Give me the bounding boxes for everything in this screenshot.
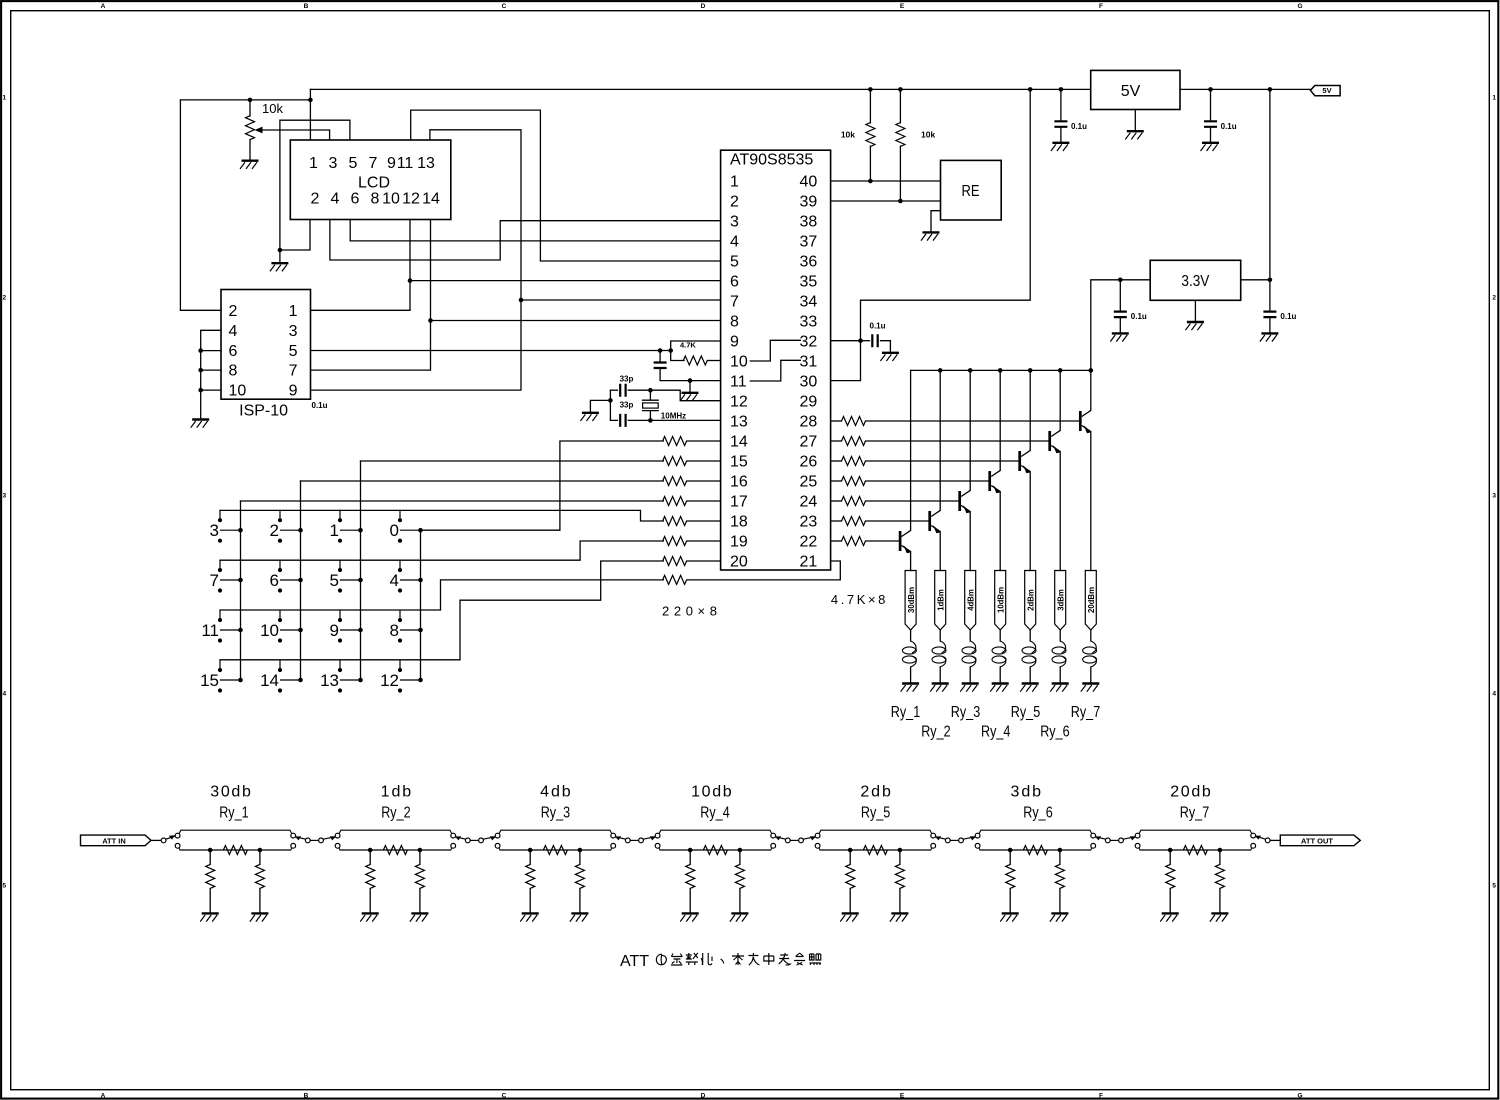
ground (AREF cap)	[880, 353, 899, 361]
wire: LCD pin13 to IC pin7 and ISP pin9	[311, 130, 721, 390]
resistor 4.7K (pin24)	[831, 497, 960, 506]
svg-text:5V: 5V	[1322, 86, 1331, 95]
ground (5V out cap)	[1201, 143, 1220, 151]
svg-text:31: 31	[800, 354, 818, 371]
svg-text:36: 36	[800, 254, 818, 271]
ground (3.3V reg)	[1185, 322, 1204, 330]
svg-text:27: 27	[800, 434, 818, 451]
transistor Q5	[1020, 450, 1031, 473]
svg-text:5: 5	[1492, 883, 1496, 890]
svg-text:3: 3	[730, 214, 739, 231]
svg-text:B: B	[304, 1093, 309, 1100]
svg-text:Ry_3: Ry_3	[541, 804, 570, 821]
switch pole (output)	[1255, 836, 1270, 843]
wire: collector column Q5	[1029, 370, 1031, 450]
resistor 4.7K (pin28)	[831, 417, 1081, 426]
wire: emitter Q2 to relay	[939, 532, 941, 571]
attenuator section 10db (Ry_4)	[655, 830, 775, 852]
resistor (series 30db)	[223, 846, 247, 855]
svg-text:1: 1	[289, 303, 298, 320]
wire: LCD pin5/pin2 ground net	[278, 120, 350, 263]
svg-text:8: 8	[371, 190, 380, 207]
svg-text:33p: 33p	[620, 374, 634, 383]
wire: emitter Q3 to relay	[969, 512, 971, 571]
resistor 4.7K (pin27)	[831, 437, 1050, 446]
resistor (series 2db)	[863, 846, 887, 855]
svg-text:F: F	[1099, 1093, 1103, 1100]
svg-text:39: 39	[800, 194, 818, 211]
resistor (series 1db)	[383, 846, 407, 855]
switch between section 1 and 2	[295, 836, 336, 843]
svg-text:B: B	[304, 3, 309, 10]
connector ISP-10	[221, 290, 311, 420]
ground (ISP)	[191, 420, 210, 428]
svg-text:14: 14	[260, 671, 279, 690]
svg-text:LCD: LCD	[358, 174, 390, 191]
ground (shunt left 10db)	[680, 913, 699, 921]
wire: driver collector rail	[911, 368, 1091, 373]
wire: 5V reg ground	[1134, 110, 1136, 132]
svg-text:23: 23	[800, 514, 818, 531]
pushbutton SW 3	[210, 510, 243, 542]
ground (Ry_5)	[1020, 684, 1039, 692]
svg-text:4: 4	[730, 234, 739, 251]
resistor 220 (pin14)	[663, 437, 721, 446]
svg-text:10k: 10k	[841, 130, 855, 140]
resistor (shunt right 10db)	[735, 850, 744, 913]
svg-text:9: 9	[730, 334, 739, 351]
wire: keypad row2 net to pin19	[220, 541, 663, 560]
svg-text:F: F	[1099, 3, 1103, 10]
wire: collector column Q1	[910, 370, 912, 530]
frame column labels top	[101, 3, 1303, 10]
svg-text:8: 8	[390, 621, 399, 640]
relay coil Ry_4 (10dBm)	[992, 571, 1006, 684]
LCD module box	[290, 140, 451, 220]
svg-text:9: 9	[330, 621, 339, 640]
ground (shunt right 30db)	[250, 913, 269, 921]
svg-text:12: 12	[380, 671, 399, 690]
wire: collector column Q2	[939, 370, 941, 510]
power flag 5V	[1310, 86, 1340, 96]
svg-text:1: 1	[1492, 95, 1496, 102]
resistor (shunt right 30db)	[255, 850, 264, 913]
wire: 3.3V input net	[1089, 278, 1151, 411]
svg-text:11: 11	[397, 155, 414, 172]
svg-text:6: 6	[730, 274, 739, 291]
svg-text:25: 25	[800, 474, 818, 491]
svg-text:Ry_4: Ry_4	[700, 804, 729, 821]
ground (Ry_2)	[930, 684, 949, 692]
svg-text:0.1u: 0.1u	[312, 401, 328, 410]
svg-text:ISP-10: ISP-10	[239, 403, 288, 420]
wire: emitter Q6 to relay	[1059, 452, 1061, 571]
svg-text:13: 13	[730, 414, 748, 431]
svg-text:0.1u: 0.1u	[1280, 312, 1296, 321]
potentiometer VR1 10k	[246, 100, 330, 161]
transistor Q1	[900, 530, 911, 553]
svg-text:10k: 10k	[921, 130, 935, 140]
svg-text:4db: 4db	[540, 783, 571, 800]
wire: IC pin40 to RE	[831, 179, 941, 184]
svg-text:0.1u: 0.1u	[870, 321, 886, 330]
svg-text:3.3V: 3.3V	[1181, 273, 1209, 290]
ground (5V in cap)	[1051, 143, 1070, 151]
wire: LCD pin4 to IC pin3	[330, 220, 721, 261]
svg-text:29: 29	[800, 394, 818, 411]
resistor (shunt left 20db)	[1166, 850, 1175, 913]
svg-text:3: 3	[2, 493, 6, 500]
svg-text:2: 2	[311, 190, 320, 207]
svg-text:10db: 10db	[691, 783, 732, 800]
svg-text:13: 13	[417, 155, 435, 172]
svg-text:16: 16	[730, 474, 748, 491]
capacitor 0.1u (AREF)	[861, 321, 891, 353]
svg-text:Ry_5: Ry_5	[861, 804, 890, 821]
transistor Q2	[930, 510, 941, 533]
ground (shunt right 20db)	[1210, 913, 1229, 921]
svg-text:E: E	[900, 1093, 905, 1100]
wire: keypad row1 net to pin18	[220, 510, 663, 521]
pushbutton SW 13	[320, 660, 363, 692]
resistor 4.7K (pin26)	[831, 457, 1020, 466]
svg-text:19: 19	[730, 534, 748, 551]
ground (shunt left 3db)	[1000, 913, 1019, 921]
svg-text:4: 4	[2, 691, 6, 698]
wire: LCD pin6 to IC pin4	[350, 220, 720, 241]
svg-text:2: 2	[229, 303, 238, 320]
svg-text:15: 15	[730, 454, 748, 471]
svg-text:3dBm: 3dBm	[1055, 589, 1065, 611]
svg-text:C: C	[502, 3, 507, 10]
ground (3.3V left cap)	[1110, 333, 1129, 341]
svg-text:11: 11	[730, 374, 747, 391]
svg-text:10: 10	[260, 621, 279, 640]
svg-text:G: G	[1297, 3, 1302, 10]
svg-text:0.1u: 0.1u	[1071, 122, 1087, 131]
pushbutton SW 5	[330, 560, 363, 592]
ground (shunt left 2db)	[840, 913, 859, 921]
svg-text:10dBm: 10dBm	[995, 587, 1005, 613]
relay name labels	[891, 704, 1100, 741]
wire: switch to ATT OUT	[1270, 839, 1280, 841]
svg-text:Ry_4: Ry_4	[981, 724, 1010, 741]
svg-text:34: 34	[800, 294, 818, 311]
svg-text:38: 38	[800, 214, 818, 231]
resistor 10k (pin40 pull-up)	[841, 89, 875, 181]
svg-text:35: 35	[800, 274, 818, 291]
relay coil Ry_3 (4dBm)	[962, 571, 976, 684]
resistor 220 (pin16)	[663, 477, 721, 486]
svg-text:11: 11	[201, 621, 219, 640]
pushbutton SW 1	[330, 510, 363, 542]
svg-text:2: 2	[270, 521, 279, 540]
resistor (shunt right 3db)	[1055, 850, 1064, 913]
svg-text:13: 13	[320, 671, 339, 690]
ground (IC pin11)	[680, 393, 699, 401]
svg-text:0: 0	[390, 521, 399, 540]
svg-text:4: 4	[390, 571, 399, 590]
relay coil Ry_5 (2dBm)	[1022, 571, 1036, 684]
wire: keypad row4 net to pin20	[220, 561, 663, 660]
svg-text:RE: RE	[962, 183, 980, 200]
svg-text:12: 12	[402, 190, 420, 207]
svg-text:10MHz: 10MHz	[661, 411, 686, 420]
wire: pin11 to pin31 jog	[750, 360, 800, 381]
wire: emitter Q5 to relay	[1029, 472, 1031, 571]
svg-text:1: 1	[730, 174, 739, 191]
wire: col A net to pin17	[241, 500, 664, 502]
ground (Ry_4)	[990, 684, 1009, 692]
svg-text:3: 3	[210, 521, 219, 540]
svg-text:26: 26	[800, 454, 818, 471]
resistor (series 10db)	[703, 846, 727, 855]
resistor (series 20db)	[1183, 846, 1207, 855]
ground (LCD)	[270, 263, 289, 271]
resistor (shunt left 1db)	[366, 850, 375, 913]
transistor Q3	[960, 490, 971, 513]
svg-text:7: 7	[210, 571, 219, 590]
svg-text:C: C	[502, 1093, 507, 1100]
resistor (shunt right 20db)	[1215, 850, 1224, 913]
svg-text:22: 22	[800, 534, 818, 551]
resistor 220 (pin20)	[663, 557, 721, 566]
svg-text:20: 20	[730, 554, 748, 571]
svg-text:0.1u: 0.1u	[1131, 312, 1147, 321]
wire: 5V rail	[310, 87, 1310, 92]
svg-text:4dBm: 4dBm	[965, 589, 975, 611]
svg-text:40: 40	[800, 174, 818, 191]
capacitor 0.1u (5V out)	[1204, 89, 1237, 142]
resistor 4.7K (pin25)	[831, 477, 990, 486]
svg-text:5: 5	[330, 571, 339, 590]
svg-text:8: 8	[730, 314, 739, 331]
svg-text:15: 15	[200, 671, 219, 690]
svg-text:33: 33	[800, 314, 818, 331]
resistor 220 (pin21)	[663, 561, 841, 584]
resistor 220 (pin19)	[663, 537, 721, 546]
svg-text:4: 4	[1492, 691, 1496, 698]
wire: keypad column A	[240, 501, 242, 680]
svg-text:AT90S8535: AT90S8535	[730, 152, 813, 169]
rotary encoder RE	[941, 160, 1002, 220]
resistor 220 (pin18)	[663, 517, 721, 526]
switch pole (input)	[161, 835, 175, 843]
switch between section 4 and 5	[775, 836, 816, 843]
regulator 3.3V	[1150, 260, 1241, 300]
svg-text:28: 28	[800, 414, 818, 431]
pushbutton SW 7	[210, 560, 243, 592]
switch between section 2 and 3	[455, 836, 496, 843]
pushbutton SW 10	[260, 610, 303, 642]
ground (Ry_6)	[1050, 684, 1069, 692]
resistor (shunt left 30db)	[206, 850, 215, 913]
attenuator section 20db (Ry_7)	[1135, 830, 1255, 852]
svg-text:1: 1	[330, 521, 339, 540]
svg-text:Ry_7: Ry_7	[1071, 704, 1100, 721]
attenuator section 1db (Ry_2)	[335, 830, 455, 852]
svg-text:10: 10	[229, 383, 247, 400]
ground (shunt right 3db)	[1050, 913, 1069, 921]
ground (shunt left 1db)	[360, 913, 379, 921]
resistor (shunt left 4db)	[526, 850, 535, 913]
svg-text:18: 18	[730, 514, 748, 531]
wire: 5V down to 3.3V output	[1241, 89, 1273, 282]
svg-text:Ry_6: Ry_6	[1023, 804, 1052, 821]
wire: col C net to pin15	[361, 460, 664, 462]
svg-text:2: 2	[1492, 295, 1496, 302]
wire: col D net to pin14	[421, 441, 664, 530]
svg-text:4: 4	[229, 323, 238, 340]
svg-text:G: G	[1297, 1093, 1302, 1100]
svg-text:30db: 30db	[210, 783, 251, 800]
wire: LCD pin11 to IC pin5	[411, 110, 721, 261]
svg-text:D: D	[701, 3, 706, 10]
resistor (shunt right 2db)	[895, 850, 904, 913]
resistor 4.7K (reset pull-up)	[671, 340, 721, 365]
wire: ATT IN to switch	[151, 839, 161, 841]
wire: VCC tap to pot and ISP pin2	[180, 89, 312, 310]
resistor 10k (pin39 pull-up)	[896, 89, 936, 201]
pushbutton SW 9	[330, 610, 363, 642]
crystal X1 10MHz	[643, 390, 687, 420]
ground (shunt left 4db)	[520, 913, 539, 921]
svg-text:37: 37	[800, 234, 818, 251]
svg-text:3db: 3db	[1011, 783, 1042, 800]
svg-text:ATT IN: ATT IN	[102, 837, 126, 846]
svg-text:3: 3	[289, 323, 298, 340]
resistor (shunt left 10db)	[686, 850, 695, 913]
pushbutton SW 11	[201, 610, 242, 642]
IC U1 AT90S8535	[721, 150, 831, 570]
relay coil Ry_1 (30dBm)	[902, 571, 916, 684]
svg-text:17: 17	[730, 494, 748, 511]
svg-text:9: 9	[387, 155, 396, 172]
relay coil Ry_6 (3dBm)	[1052, 571, 1066, 684]
wire: keypad row3 net to pin21	[220, 580, 663, 610]
svg-text:1: 1	[2, 95, 6, 102]
pushbutton SW 15	[200, 660, 243, 692]
ground (pot)	[240, 161, 259, 169]
resistor 4.7K (pin22)	[831, 537, 901, 546]
pushbutton SW 4	[390, 560, 423, 592]
svg-text:32: 32	[800, 334, 818, 351]
svg-text:6: 6	[351, 190, 360, 207]
note: ATT constants see text (Japanese)	[620, 953, 821, 970]
ground (crystal)	[580, 413, 599, 421]
svg-text:3: 3	[329, 155, 338, 172]
svg-text:2: 2	[730, 194, 739, 211]
svg-text:1db: 1db	[381, 783, 412, 800]
frame column labels bottom	[101, 1093, 1303, 1100]
pushbutton SW 2	[270, 510, 303, 542]
pushbutton SW 8	[390, 610, 423, 642]
svg-text:7: 7	[289, 363, 298, 380]
attenuator section 30db (Ry_1)	[175, 830, 295, 852]
switch between section 5 and 6	[935, 836, 976, 843]
pushbutton SW 14	[260, 660, 303, 692]
capacitor 33p (XTAL1)	[608, 390, 720, 427]
wire: 3.3V reg ground	[1194, 300, 1196, 322]
ground (shunt left 20db)	[1160, 913, 1179, 921]
resistor (shunt right 1db)	[415, 850, 424, 913]
wire: reset net ISP pin5	[311, 341, 721, 353]
wire: IC pin32/pin30 to 5V	[831, 89, 1031, 380]
svg-text:12: 12	[730, 394, 748, 411]
svg-text:5: 5	[289, 343, 298, 360]
frame row labels right	[1492, 95, 1496, 890]
wire: pin10 to pin32 jog	[750, 340, 800, 361]
svg-text:9: 9	[289, 383, 298, 400]
svg-text:7: 7	[369, 155, 378, 172]
wire: collector column Q3	[969, 370, 971, 490]
svg-text:7: 7	[730, 294, 739, 311]
ground (shunt left 30db)	[200, 913, 219, 921]
resistor 220 (pin15)	[663, 457, 721, 466]
svg-text:30dBm: 30dBm	[906, 587, 916, 613]
ground (Ry_7)	[1081, 684, 1100, 692]
svg-text:33p: 33p	[620, 401, 634, 410]
switch between section 6 and 7	[1095, 836, 1136, 843]
svg-text:21: 21	[800, 554, 818, 571]
wire: RE ground stub	[931, 211, 941, 233]
transistor Q4	[990, 470, 1001, 493]
svg-text:1dBm: 1dBm	[935, 589, 945, 611]
ground (Ry_3)	[960, 684, 979, 692]
wire: keypad column B	[300, 481, 302, 680]
ground (5V reg)	[1125, 131, 1144, 139]
transistor Q6	[1050, 430, 1061, 453]
svg-text:2: 2	[2, 295, 6, 302]
resistor (shunt left 2db)	[846, 850, 855, 913]
capacitor 0.1u (3.3V left)	[1114, 280, 1147, 334]
wire: emitter Q7 to relay	[1090, 432, 1092, 571]
flag ATT IN	[81, 835, 152, 846]
regulator 5V	[1091, 70, 1180, 109]
relay coil Ry_2 (1dBm)	[932, 571, 946, 684]
svg-text:A: A	[101, 1093, 106, 1100]
pushbutton SW 6	[270, 560, 303, 592]
ground (Ry_1)	[901, 684, 920, 692]
transistor Q7	[1080, 410, 1091, 433]
svg-text:A: A	[101, 3, 106, 10]
flag ATT OUT	[1280, 835, 1360, 846]
svg-text:D: D	[701, 1093, 706, 1100]
svg-text:E: E	[900, 3, 905, 10]
resistor (series 4db)	[543, 846, 567, 855]
svg-text:Ry_5: Ry_5	[1011, 704, 1040, 721]
resistor (series 3db)	[1023, 846, 1047, 855]
svg-text:Ry_1: Ry_1	[219, 804, 248, 821]
wire: emitter Q4 to relay	[999, 492, 1001, 571]
svg-text:Ry_6: Ry_6	[1040, 724, 1069, 741]
wire: keypad column C	[360, 461, 362, 680]
svg-text:Ry_7: Ry_7	[1180, 804, 1209, 821]
svg-text:10: 10	[382, 190, 400, 207]
svg-text:2db: 2db	[860, 783, 891, 800]
wire: collector column Q4	[999, 370, 1001, 470]
svg-text:14: 14	[730, 434, 748, 451]
wire: collector column Q6	[1059, 370, 1061, 430]
frame row labels left	[2, 95, 6, 890]
resistor 220 (pin17)	[663, 497, 721, 506]
capacitor (reset)	[654, 351, 721, 393]
svg-text:Ry_3: Ry_3	[951, 704, 980, 721]
capacitor 33p (XTAL2)	[610, 374, 720, 400]
ground (shunt right 1db)	[410, 913, 429, 921]
svg-text:10k: 10k	[262, 101, 283, 116]
svg-text:ATT: ATT	[620, 953, 649, 970]
